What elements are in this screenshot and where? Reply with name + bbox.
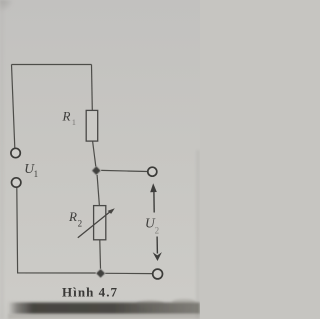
svg-text:1: 1	[34, 169, 39, 179]
svg-text:1: 1	[72, 117, 76, 127]
svg-text:R: R	[62, 108, 71, 123]
svg-text:2: 2	[78, 219, 83, 229]
svg-text:Hình 4.7: Hình 4.7	[62, 285, 118, 300]
svg-text:R: R	[68, 209, 77, 224]
svg-text:2: 2	[155, 226, 160, 236]
